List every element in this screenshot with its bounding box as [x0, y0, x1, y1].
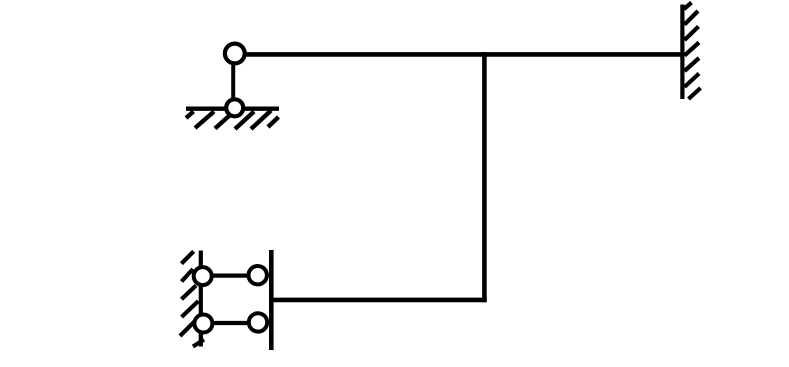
member BC (vertical beam): [482, 52, 487, 302]
ground hatch 6: [268, 117, 279, 127]
wall hatch 3: [685, 27, 699, 41]
pinned support ground (top left): [186, 109, 279, 129]
roller circle top-left: [194, 267, 212, 285]
member CD (bottom horizontal beam): [270, 298, 487, 303]
wall hatch 6: [193, 340, 204, 347]
ground hatch 1: [186, 112, 194, 119]
wall hatch 6: [685, 74, 700, 88]
wall hatch 4: [685, 43, 700, 56]
roller circle top-right: [249, 266, 267, 284]
member AB (top horizontal beam): [235, 52, 682, 57]
support link (between the two hinges): [231, 55, 235, 107]
bottom roller link: [203, 321, 258, 325]
wall hatch 3: [182, 286, 197, 300]
ground hatch 3: [215, 112, 234, 129]
fixed wall at right: [682, 3, 700, 100]
slider bar (vertical bar of roller support): [269, 250, 274, 350]
wall line: [680, 5, 684, 100]
wall hatch 4: [182, 301, 199, 317]
wall hatch 5: [180, 320, 196, 336]
wall hatch 1: [684, 3, 692, 10]
wall hatch 7: [689, 88, 701, 99]
wall hatch 5: [685, 58, 700, 71]
lower hinge circle (pin on ground): [226, 99, 243, 116]
ground hatch 4: [235, 112, 254, 130]
roller circle bottom-right: [249, 313, 267, 331]
wall hatch 1: [181, 251, 193, 263]
ground hatch 5: [251, 111, 271, 130]
wall hatch 2: [685, 11, 699, 25]
ground hatch 2: [195, 112, 214, 129]
ground line: [186, 106, 279, 110]
roller support wall (bottom left): [180, 251, 204, 347]
wall hatch 2: [182, 269, 194, 282]
top roller link: [203, 274, 258, 278]
upper hinge circle: [225, 44, 245, 64]
roller circle bottom-left: [194, 315, 212, 333]
wall line: [199, 251, 203, 347]
